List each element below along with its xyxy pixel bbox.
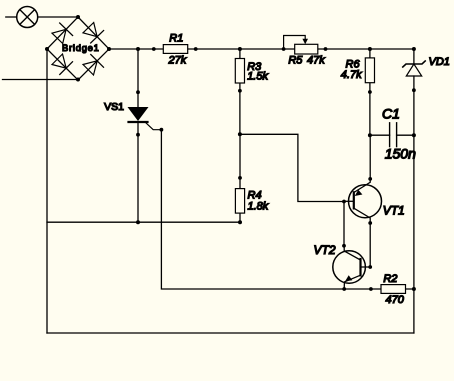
junction R6 branch on top rail bbox=[368, 47, 372, 51]
svg-text:VT1: VT1 bbox=[383, 204, 405, 218]
svg-text:R5: R5 bbox=[288, 54, 303, 66]
wire mains bottom-left to bridge bottom node bbox=[3, 79, 79, 81]
wire lamp to bridge top node bbox=[38, 16, 78, 18]
junction VS1 anode branch on top rail bbox=[136, 47, 140, 51]
svg-text:VD1: VD1 bbox=[429, 56, 450, 68]
node bridge right (plus) bbox=[107, 47, 111, 51]
wire emitter rail to R2 bbox=[344, 288, 414, 290]
svg-text:27k: 27k bbox=[168, 54, 187, 66]
transistor VT1 (PNP) bbox=[342, 177, 381, 225]
diode bottom-right (bottom node to right node) bbox=[83, 61, 97, 75]
node bridge top (AC) bbox=[76, 15, 80, 19]
wire VT1 base down to VT2 collector bbox=[343, 202, 345, 246]
node bridge bottom (AC) bbox=[76, 78, 80, 82]
wire VS1 gate down and right to emitter line bbox=[161, 130, 344, 289]
potentiometer R5 bbox=[282, 36, 328, 55]
svg-text:470: 470 bbox=[386, 294, 405, 306]
resistor R4 bbox=[235, 134, 244, 224]
capacitor C1 bbox=[368, 123, 416, 147]
resistor R2 bbox=[369, 285, 416, 294]
svg-text:R2: R2 bbox=[383, 273, 397, 285]
wire VT1 collector down to VT2 base bbox=[361, 223, 371, 267]
junction top rail corner at VD1 bbox=[412, 47, 416, 51]
transistor VT2 (NPN) bbox=[333, 244, 372, 291]
svg-text:VT2: VT2 bbox=[314, 243, 336, 257]
resistor R3 bbox=[235, 49, 244, 134]
wire left rail down from bridge left node bbox=[46, 49, 48, 333]
svg-text:R1: R1 bbox=[169, 32, 183, 44]
diode top-left (left node to top node) bbox=[52, 29, 66, 43]
junction R3/R4/base wire bbox=[238, 132, 242, 136]
wire from R3 bottom junction to VT1 base bbox=[240, 134, 344, 201]
wire mains top-left to lamp bbox=[6, 16, 17, 18]
svg-text:1.5k: 1.5k bbox=[247, 71, 268, 83]
svg-text:Bridge1: Bridge1 bbox=[62, 43, 100, 53]
gate of VS1 bbox=[146, 123, 161, 130]
node bridge left (minus) bbox=[45, 47, 49, 51]
junction VS1 cathode on mid rail bbox=[136, 220, 140, 224]
diode top-right (top node to right node) bbox=[83, 23, 97, 37]
resistor R1 bbox=[152, 45, 198, 54]
wire top rail from bridge right node to VD1 bbox=[109, 48, 414, 50]
diode bottom-left (left node to bottom node) bbox=[52, 54, 66, 68]
zener diode VD1 bbox=[403, 49, 425, 333]
svg-text:C1: C1 bbox=[382, 105, 400, 121]
junction R3 branch on top rail bbox=[238, 47, 242, 51]
resistor R6 bbox=[365, 49, 374, 135]
svg-text:VS1: VS1 bbox=[104, 101, 124, 113]
svg-text:1.8k: 1.8k bbox=[248, 200, 269, 212]
wire mid rail from left rail to R4 bottom bbox=[47, 221, 240, 223]
bridge rectifier Bridge1 bbox=[47, 17, 109, 80]
svg-text:150n: 150n bbox=[385, 146, 416, 162]
wire bottom rail bbox=[47, 332, 414, 334]
svg-text:47k: 47k bbox=[307, 54, 325, 66]
svg-text:4.7k: 4.7k bbox=[341, 69, 362, 81]
lamp EL1 bbox=[17, 7, 38, 28]
wire VT1 emitter up to C1 junction bbox=[369, 135, 371, 179]
thyristor VS1 bbox=[128, 49, 164, 222]
